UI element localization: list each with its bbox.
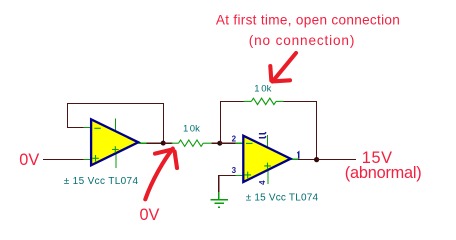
U2 pin 1 number — [297, 152, 298, 159]
wire: R1 to node B — [211, 142, 220, 144]
red arrow to R2 (open connection) — [270, 53, 296, 82]
U2 output pin stub — [291, 158, 298, 160]
wire: U1 output to node A — [147, 142, 163, 144]
svg-text:± 15 Vcc TL074: ± 15 Vcc TL074 — [64, 176, 139, 187]
wire: node B to U2 - input — [220, 142, 237, 144]
U1 input pin stubs — [84, 126, 91, 128]
U2 input pin stubs — [236, 142, 243, 144]
wire: node A to R1 — [163, 142, 172, 144]
junction node A (0V node) — [161, 141, 166, 146]
op-amp U2 — [232, 132, 299, 185]
U1 noninverting input marker — [92, 155, 99, 162]
op-amp U1 — [84, 119, 148, 168]
junction node C (output node) — [314, 157, 319, 162]
U1 top power pin — [114, 119, 116, 133]
U2 top power pin — [267, 135, 269, 149]
resistor R2 10k (feedback) — [244, 98, 284, 104]
U1 inverting input marker — [94, 127, 101, 129]
U2 bottom power pin — [267, 170, 269, 184]
U2 V+ marker — [264, 163, 271, 170]
resistor R1 10k — [172, 140, 212, 146]
svg-text:(no connection): (no connection) — [249, 33, 355, 48]
svg-text:2: 2 — [232, 135, 237, 144]
U1 bottom power pin — [115, 154, 117, 168]
wire: U2 feedback loop left/top/right — [220, 101, 316, 159]
U2 noninverting input marker — [244, 172, 251, 179]
svg-text:3: 3 — [232, 166, 237, 175]
svg-text:0V: 0V — [140, 206, 160, 224]
wire: ground to U2 + input — [219, 175, 237, 192]
U2 pin 11 number (rotated) — [259, 132, 266, 138]
ground symbol — [210, 192, 228, 209]
wire: U2 output to node C — [298, 158, 317, 160]
svg-text:10k: 10k — [254, 83, 271, 94]
red arrow pointing at node A — [145, 149, 177, 200]
U1 output pin stub — [139, 142, 148, 144]
U2 triangle body — [243, 136, 290, 182]
svg-text:At first time, open connection: At first time, open connection — [216, 13, 400, 28]
junction node B — [217, 141, 222, 146]
svg-text:4: 4 — [258, 180, 267, 185]
svg-text:0V: 0V — [19, 151, 39, 169]
U1 triangle body — [91, 119, 138, 165]
wire: U1 feedback loop (output to - input) — [67, 103, 163, 143]
svg-text:10k: 10k — [183, 123, 200, 134]
svg-text:(abnormal): (abnormal) — [345, 164, 422, 182]
wire: node C to output terminal — [317, 158, 357, 160]
svg-text:± 15 Vcc TL074: ± 15 Vcc TL074 — [246, 193, 319, 204]
U2 inverting input marker — [246, 142, 253, 144]
wire: 0V input to U1 + input — [43, 158, 84, 160]
U1 V+ marker — [112, 146, 119, 153]
